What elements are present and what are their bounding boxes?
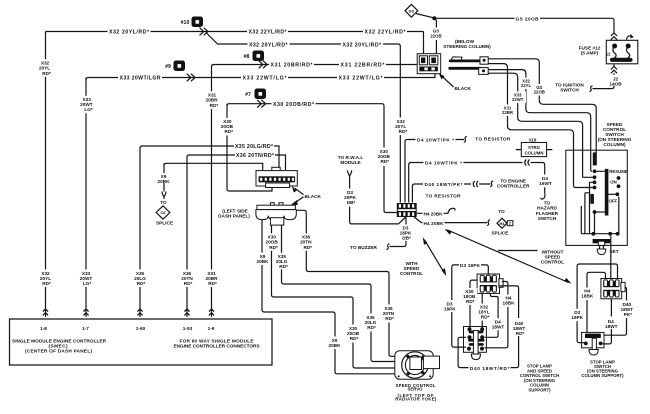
svg-text:RD*: RD* <box>269 245 278 250</box>
switch S3 row1 contacts <box>468 327 485 332</box>
label X31 20BR RD* vertical bottom <box>204 270 220 288</box>
svg-text:STEERING COLUMN): STEERING COLUMN) <box>443 44 491 49</box>
servo outer ring <box>402 352 428 378</box>
svg-text:TO: TO <box>498 209 505 214</box>
connector chevron SMEC pin 1-9 <box>209 309 214 316</box>
label X9 20BK near servo <box>328 337 343 350</box>
svg-text:COLUMN): COLUMN) <box>603 142 626 147</box>
label X31 22BR/RD* row3 <box>339 61 386 69</box>
svg-text:DB*: DB* <box>347 200 356 205</box>
svg-text:(5 AMP): (5 AMP) <box>581 50 599 55</box>
label H4 18BK (with-SC) <box>501 295 516 308</box>
stalk lower bar <box>450 67 480 70</box>
switch S1 secondary bar <box>590 194 594 204</box>
svg-text:1-60: 1-60 <box>136 326 146 331</box>
wire GS 22OB stalk to switch <box>488 59 596 153</box>
wire X31 left vertical to SMEC <box>211 66 213 317</box>
svg-text:X32 20YL/RD*: X32 20YL/RD* <box>249 42 288 48</box>
svg-text:18PK: 18PK <box>444 306 456 311</box>
svg-text:TO: TO <box>160 200 167 205</box>
wire X36 from J2 right side down and across to servo <box>296 210 395 356</box>
label STOP LAMP SWITCH (ON STEERING COLUMN SUPPORT) <box>581 360 624 378</box>
wire X30 18OB loop to with-SC switch <box>470 280 477 328</box>
wire D3 18PK to buzzer <box>390 217 407 247</box>
label D4 18WT/PK * <box>424 159 464 166</box>
wire D3 20PK from RWAL to connector C4 <box>350 179 406 224</box>
switch S1 bottom row dots <box>592 232 620 236</box>
wire X35 from J2 down and across to servo <box>282 225 396 361</box>
svg-text:RD*: RD* <box>42 71 51 76</box>
label WITHOUT SPEED CONTROL <box>538 247 568 265</box>
svg-text:X35 20LG/RD*: X35 20LG/RD* <box>235 144 274 150</box>
switch S1 right contact dots <box>608 176 620 196</box>
connector chevron SMEC pin 1-7 <box>83 309 88 316</box>
label D3 20PK DB* <box>344 190 356 205</box>
label D3 18PK (stop lamp) <box>570 309 585 322</box>
label X32 20YL RD* mid vertical <box>394 118 410 136</box>
connector chevrons below fuse <box>611 66 617 73</box>
svg-text:22WT: 22WT <box>512 97 524 102</box>
svg-text:SWITCH: SWITCH <box>538 216 557 221</box>
wire X35 left vertical to SMEC <box>139 148 141 317</box>
label X32 22YL stacked <box>518 78 534 90</box>
label J2 14OB <box>609 76 622 86</box>
label GS 20OB <box>515 15 541 22</box>
icon #10 <box>181 17 203 28</box>
svg-text:RD*: RD* <box>303 245 312 250</box>
wire X30 up into connector J1 <box>227 104 272 191</box>
wire X32 18YL from connector C5 bottom <box>481 293 483 328</box>
label D4 18WT (stop lamp) <box>605 319 618 329</box>
wire D4 18WT/PK row to strg column <box>409 163 545 203</box>
svg-text:1-7: 1-7 <box>82 326 89 331</box>
label FUSE #12 (5 AMP) <box>579 45 601 55</box>
label D40 18WT RD* vertical <box>513 321 526 336</box>
label TO ENGINE CONTROLLER <box>497 178 530 188</box>
label D4 16WT <box>537 175 553 188</box>
svg-text:SPLICE: SPLICE <box>491 231 508 236</box>
label X33 22WT/LG* row4 right <box>337 74 384 82</box>
wire D3 18PK top into connector C5 <box>452 265 489 274</box>
switch S3 row3 contacts <box>467 344 484 350</box>
svg-text:RD*: RD* <box>184 281 193 286</box>
svg-text:RD*: RD* <box>42 281 51 286</box>
switch S2 plunger <box>589 338 598 355</box>
continuation hook to hazard flasher <box>541 193 545 199</box>
label X30 18OB RD* (with-SC) <box>462 288 478 305</box>
connector C6 stop lamp switch <box>601 279 625 299</box>
annotation line to WITHOUT text <box>498 250 538 252</box>
wire D4 20WT/PK row <box>405 140 464 203</box>
svg-text:RD*: RD* <box>399 129 408 134</box>
svg-text:#10: #10 <box>181 20 190 26</box>
svg-text:#8: #8 <box>244 54 250 60</box>
svg-text:BLACK: BLACK <box>455 86 472 91</box>
label X32 22YL/RD* row1 mid <box>247 28 288 36</box>
svg-text:(CENTER OF DASH PANEL): (CENTER OF DASH PANEL) <box>25 348 92 353</box>
svg-text:D4 20WT/PK *: D4 20WT/PK * <box>417 138 454 143</box>
wire J2 14OB to ignition switch <box>593 64 615 89</box>
label D3 18PK horizontal <box>459 262 481 269</box>
switch S1 lower contact dot and link <box>593 210 607 214</box>
label D4 18WT (with-SC) <box>491 318 506 330</box>
wire X32 22YL into connector C1 top <box>423 32 425 54</box>
svg-text:OFF: OFF <box>609 199 618 204</box>
connector symbol >> #9 on row4 <box>187 74 195 82</box>
svg-text:18PK: 18PK <box>571 315 583 320</box>
svg-text:#10: #10 <box>529 137 537 142</box>
wire D40 18WT RD* from connector C5 right <box>458 286 518 368</box>
label D40 18WT/PK* <box>423 181 464 188</box>
wire X31 row3 horizontal <box>212 65 418 67</box>
servo center square <box>410 357 422 370</box>
SMEC title text <box>12 338 107 353</box>
label TO HAZARD FLASHER SWITCH <box>536 200 559 221</box>
label X30 20OB RD* near servo <box>346 325 362 343</box>
label STOP LAMP AND SPEED CONTROL SWITCH (ON STEERING COLUMN SUPPORT) <box>520 364 559 393</box>
svg-text:X32 22YL/RD*: X32 22YL/RD* <box>365 29 407 35</box>
speed control servo M1 body <box>395 351 433 380</box>
svg-text:RD*: RD* <box>380 159 389 164</box>
wire D4 18WT from connector C5 bottom <box>485 293 499 337</box>
svg-text:TO RESISTOR: TO RESISTOR <box>426 193 462 198</box>
switch S2 contact dots <box>584 342 603 346</box>
svg-text:20YL: 20YL <box>39 66 50 71</box>
svg-text:PK*: PK* <box>624 312 633 317</box>
switch S3 row2 contacts <box>468 335 485 340</box>
switch S2 contact bar <box>585 334 601 338</box>
label X31 20BR/RD* row3 <box>269 61 314 69</box>
connector chevron SMEC pin 1-8 <box>43 309 48 316</box>
label TO R.W.A.L MODULE <box>338 155 364 165</box>
svg-text:X31 22BR/RD*: X31 22BR/RD* <box>341 63 386 69</box>
stalk contact box lower <box>479 68 489 75</box>
continuation squiggle TO BUZZER <box>387 244 390 250</box>
svg-text:LG*: LG* <box>83 281 92 286</box>
label X31 20BR RD* vertical top <box>205 91 221 109</box>
annotation arrow WITHOUT SPEED CONTROL (double-headed) <box>445 229 572 284</box>
label SPEED CONTROL SWITCH (ON STEERING COLUMN) <box>598 122 632 147</box>
svg-text:14OB: 14OB <box>609 81 622 86</box>
label BLACK with leader arrows (dash panel connectors) <box>291 186 322 205</box>
label D3 18PK DB* <box>398 225 414 242</box>
wire X9 from J2 down and across to servo <box>262 220 396 374</box>
svg-text:18WT: 18WT <box>605 324 618 329</box>
switch S1 main wiper bar <box>605 169 609 216</box>
continuation squiggle TO ENGINE CONTROLLER <box>490 181 493 187</box>
svg-text:1-8: 1-8 <box>40 326 47 331</box>
wire H4 18BK loop to stop lamp switch <box>587 272 606 332</box>
svg-text:20BK: 20BK <box>329 343 342 348</box>
label X35 20LG RD* near servo <box>363 314 379 332</box>
svg-text:ENGINE CONTROLLER CONNECTORS: ENGINE CONTROLLER CONNECTORS <box>174 343 260 348</box>
svg-text:X32 22YL/RD*: X32 22YL/RD* <box>249 29 288 35</box>
svg-text:20BK: 20BK <box>257 259 270 264</box>
label X33 20WT/LGR row4 left <box>118 74 162 82</box>
wire X30 vertical into connector C4 left <box>384 166 397 213</box>
wire D40 18WT/PK row <box>412 184 490 203</box>
label X32 20YL/RD* row2 right <box>341 41 383 49</box>
svg-text:18BK: 18BK <box>581 294 594 299</box>
fuse F12 symbol <box>606 33 638 64</box>
svg-text:X36 20TN/RD*: X36 20TN/RD* <box>236 153 275 159</box>
wire X36 left vertical to SMEC <box>186 157 188 317</box>
servo corner dots <box>398 375 400 377</box>
label X35 20LG RD* below J2 <box>275 253 291 269</box>
label X32 20YL RD* vertical bottom <box>38 270 54 288</box>
label X32 20YL/RD* row2 left <box>248 41 290 49</box>
stalk contact box upper <box>480 57 488 64</box>
icon #9 <box>165 61 185 72</box>
wire X9 horizontal to connector <box>164 163 263 170</box>
svg-text:D40 18WT/PK*: D40 18WT/PK* <box>425 182 463 187</box>
label X32 20YL/RD* row1 left <box>108 28 151 36</box>
svg-text:D3 18PK: D3 18PK <box>460 263 481 268</box>
label X35 20LG/RD* <box>234 142 274 150</box>
speed control stalk lever handle <box>451 57 463 61</box>
icon #7 <box>245 89 266 100</box>
svg-text:GS 20OB: GS 20OB <box>516 17 540 22</box>
label X30 20OB/RD* on X30 row <box>272 100 316 108</box>
connector box #10 STRG COLUMN <box>516 137 553 156</box>
switch S1 top contact bar <box>593 152 597 165</box>
servo mount dots <box>406 354 425 375</box>
label GS 22OB stacked <box>532 84 548 96</box>
label X33 22WT/LG* row4 mid <box>241 74 288 82</box>
junction node GS <box>432 16 436 20</box>
label D40 18WT PK* <box>619 301 635 319</box>
switch S1 bottom contact row <box>581 197 619 234</box>
pass-through connector (( on D4 row <box>523 159 531 166</box>
label BELOW STEERING COLUMN <box>443 39 491 49</box>
icon #8 <box>244 51 264 62</box>
connector J2 left-side dash panel lower <box>256 203 296 225</box>
svg-text:D4 18WT/PK *: D4 18WT/PK * <box>425 161 462 166</box>
splice symbol C8 <box>156 206 170 219</box>
label X30 20OB RD* on left vertical <box>220 118 236 135</box>
connector symbol >> #7 on X30 row <box>257 100 265 108</box>
wire X30 from J2 tab down and across to servo <box>272 225 396 368</box>
svg-text:RD*: RD* <box>385 316 394 321</box>
svg-text:X31 20BR/RD*: X31 20BR/RD* <box>271 63 314 69</box>
label X36 20TN RD* vertical bottom <box>180 270 196 288</box>
servo inner ring <box>405 355 424 374</box>
label D40 18WT/RD* bottom <box>469 364 511 371</box>
label GS 22OB on vertical <box>429 28 445 41</box>
annotation arrow WITH SPEED CONTROL (double-headed) <box>423 237 447 276</box>
svg-text:20BK: 20BK <box>158 179 171 184</box>
svg-text:C8: C8 <box>161 210 167 215</box>
svg-text:X33 20WT/LGR: X33 20WT/LGR <box>120 76 161 82</box>
SMEC box U1 <box>10 319 273 365</box>
switch S1 internal wires <box>585 182 595 233</box>
wire D3 18PK loop to stop lamp switch <box>577 264 617 343</box>
wire X30 row horizontal <box>227 104 384 148</box>
switch S1 SET plunger <box>597 241 606 254</box>
svg-text:1-53: 1-53 <box>183 326 193 331</box>
svg-text:X33 22WT/LG*: X33 22WT/LG* <box>243 76 288 82</box>
svg-text:SUPPORT): SUPPORT) <box>528 388 551 393</box>
wire D3 18PK down to with-SC switch <box>452 267 466 347</box>
svg-text:H4 20BK: H4 20BK <box>424 212 444 217</box>
svg-text:CONTROL: CONTROL <box>541 259 564 264</box>
svg-text:COLUMN: COLUMN <box>525 150 544 155</box>
wire GS diamond to junction <box>416 14 433 18</box>
broken-wire Y symbol X9 <box>162 192 166 200</box>
label X31 22BR stacked <box>500 105 516 117</box>
svg-text:X32 20YL/RD*: X32 20YL/RD* <box>343 42 382 48</box>
wire D4 18WT switch to stop lamp connector <box>603 236 612 344</box>
label H4 20BK upper <box>423 210 444 217</box>
continuation squiggle TO RESISTOR 1 <box>464 137 467 143</box>
with-SC switch S3 box <box>464 327 487 353</box>
svg-text:22YL: 22YL <box>521 83 532 88</box>
svg-text:RESUME: RESUME <box>609 169 628 174</box>
wire GS 22OB junction to connector C1 <box>434 18 436 53</box>
svg-text:RD*: RD* <box>367 325 376 330</box>
svg-text:X32: X32 <box>41 60 50 65</box>
label X36 20TN RD* below J2 <box>299 233 315 250</box>
svg-text:RD*: RD* <box>208 281 217 286</box>
svg-text:RD*: RD* <box>516 331 525 336</box>
label X30 20OB RD* below J2 <box>265 233 281 250</box>
svg-text:H4: H4 <box>500 221 506 226</box>
svg-text:RD*: RD* <box>466 299 475 304</box>
svg-text:MODULE: MODULE <box>340 160 360 165</box>
svg-text:RD*: RD* <box>350 336 359 341</box>
splice symbol H4 <box>497 218 513 228</box>
label TO IGNITION SWITCH <box>555 82 584 92</box>
connector symbol >> #10 on row1 <box>200 28 208 36</box>
svg-text:COLUMN SUPPORT): COLUMN SUPPORT) <box>581 373 624 378</box>
svg-text:12: 12 <box>606 52 611 57</box>
svg-text:#9: #9 <box>165 64 171 70</box>
svg-text:H4 20BK: H4 20BK <box>424 221 445 226</box>
wire X33 left vertical to SMEC <box>85 78 87 318</box>
wire X32 row1 horizontal <box>46 31 424 33</box>
wire X31 22BR stalk to switch <box>488 64 573 186</box>
connector C1 below steering column <box>417 54 441 74</box>
svg-text:BLACK: BLACK <box>305 194 322 199</box>
continuation squiggle H4 splice <box>487 220 490 226</box>
servo right tab <box>423 356 439 369</box>
svg-text:RADIATOR YOKE): RADIATOR YOKE) <box>395 397 437 402</box>
wire X36 20TN/RD horizontal <box>187 155 286 170</box>
wire H4 20BK lower to splice <box>414 217 487 223</box>
wire X32 left vertical to SMEC <box>45 32 47 318</box>
svg-text:DASH PANEL): DASH PANEL) <box>218 213 250 218</box>
label X30 20OB RD* right vertical <box>376 148 392 166</box>
svg-text:RD*: RD* <box>481 315 490 320</box>
label D3 18PK vertical (with-SC) <box>444 301 456 311</box>
svg-text:RD*: RD* <box>224 129 233 134</box>
label X35 20LG RD* vertical bottom <box>133 270 149 288</box>
svg-text:X30 20OB/RD*: X30 20OB/RD* <box>273 102 315 108</box>
svg-text:LG*: LG* <box>84 107 93 112</box>
wire X9 branch down to splice <box>163 163 165 191</box>
svg-text:GS: GS <box>409 8 415 13</box>
connector C4 with-speed-control 6-pin <box>397 203 417 217</box>
connector J1 left-side dash panel upper <box>256 167 297 187</box>
label H4 18BK (stop lamp) <box>580 288 595 301</box>
switch S1 contact stubs <box>574 170 605 188</box>
svg-text:DB*: DB* <box>402 235 411 240</box>
svg-text:18BK: 18BK <box>503 301 516 306</box>
wire X32 22YL stalk to switch <box>488 70 591 170</box>
wire X32 20YL branch diagonal from #10 <box>206 33 398 45</box>
label X32 18YL RD* <box>477 304 493 321</box>
label X36 20TN RD* near servo <box>381 305 397 323</box>
svg-text:CONTROL: CONTROL <box>400 271 423 276</box>
wire X32 20YL vertical to connector C4 <box>398 44 400 203</box>
connector chevron SMEC pin 1-53 <box>184 309 189 316</box>
svg-text:RD*: RD* <box>210 103 219 108</box>
label WITH SPEED CONTROL <box>400 261 423 276</box>
svg-text:TO BUZZER: TO BUZZER <box>350 245 377 250</box>
label X33 22WT stacked <box>510 92 527 104</box>
connector symbol >> #8 on row3 <box>259 61 267 69</box>
svg-text:D40 18WT/RD*: D40 18WT/RD* <box>470 366 510 371</box>
svg-text:X32 20YL/RD*: X32 20YL/RD* <box>109 29 150 35</box>
svg-text:ON: ON <box>610 180 616 185</box>
stop lamp switch S2 box <box>582 332 604 347</box>
switch S3 plunger <box>471 331 480 360</box>
svg-text:RD*: RD* <box>137 281 146 286</box>
wire D40 18WT PK* from connector tab <box>604 287 627 335</box>
svg-text:#7: #7 <box>245 92 251 98</box>
label LEFT SIDE DASH PANEL <box>218 208 250 218</box>
label X32 20YL RD* vertical top <box>38 59 54 77</box>
svg-text:SWITCH: SWITCH <box>560 87 579 92</box>
svg-text:RD*: RD* <box>279 264 288 269</box>
label X33 20WT LG* vertical top <box>80 96 96 114</box>
svg-text:18WT: 18WT <box>492 324 505 329</box>
svg-text:22OB: 22OB <box>430 34 441 39</box>
connector chevron SMEC pin 1-60 <box>137 309 142 316</box>
label X9 20BK below J2 <box>256 253 271 266</box>
wire X33 row4 horizontal <box>86 74 435 80</box>
switch S1 SET contact bar <box>593 239 611 243</box>
stalk upper bar <box>450 60 479 63</box>
SMEC right title text <box>174 338 260 348</box>
wire H4 18BK from connector C5 tab <box>485 282 508 348</box>
wire X33 22WT connector to switch <box>488 73 582 177</box>
connector C5 stop lamp and speed control switch <box>477 274 503 293</box>
switch S1 left contact dots <box>593 169 597 189</box>
wire X35 20LG/RD horizontal <box>140 146 279 170</box>
label D4 20WT/PK * <box>416 136 456 143</box>
svg-text:SPLICE: SPLICE <box>156 220 173 225</box>
svg-text:16WT: 16WT <box>539 181 552 186</box>
label BLACK steering connector with arrow <box>439 73 472 91</box>
continuation hook H4 <box>448 208 455 213</box>
broken-wire Y symbol RWAL <box>347 170 351 178</box>
label X32 22YL/RD* row1 right <box>363 28 407 36</box>
pass-through connector (( on D40 row <box>471 181 479 188</box>
label X36 20TN/RD* <box>235 151 275 159</box>
svg-text:CONTROLLER: CONTROLLER <box>497 184 530 189</box>
svg-text:STRG: STRG <box>528 145 541 150</box>
label X33 20WT LG* vertical bottom <box>79 270 95 288</box>
wire D4 16WT lower stub <box>544 188 546 194</box>
svg-text:22BR: 22BR <box>502 110 514 115</box>
speed control switch S1 box <box>566 150 628 245</box>
wire H4 20BK upper with hook <box>417 212 448 214</box>
splice symbol GS <box>405 4 418 17</box>
label H4 20BK lower <box>423 219 445 226</box>
svg-text:1-9: 1-9 <box>208 326 215 331</box>
svg-text:22OB: 22OB <box>534 90 545 95</box>
